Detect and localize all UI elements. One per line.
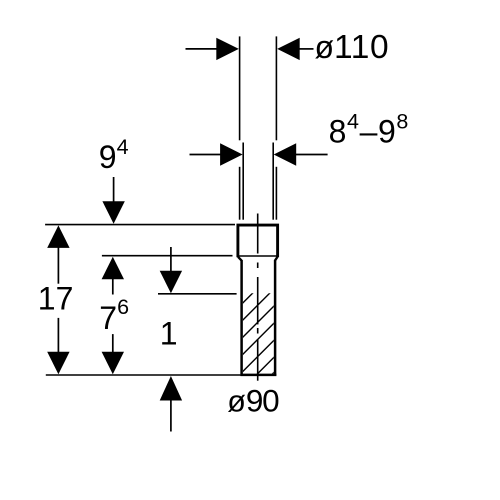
dimension 1 lower arrow (up, tip at bottom line) xyxy=(160,376,182,432)
dimension line D2 (8-9) right arrow xyxy=(274,143,328,165)
pipe hatching (45 degree) xyxy=(230,256,290,417)
extension line outer-left (x239.6) upper segment xyxy=(239,36,241,140)
dimension line D2 (8-9) left arrow xyxy=(190,143,243,165)
svg-text:17: 17 xyxy=(38,280,74,316)
label 8^4 - 9^8 xyxy=(329,109,409,149)
label ø110 xyxy=(315,29,390,66)
extension line inner-left (x243.2) xyxy=(242,143,244,220)
collar-to-pipe taper right xyxy=(275,257,278,261)
svg-text:ø110: ø110 xyxy=(315,29,390,66)
reference line B (insertion depth level) xyxy=(158,293,237,295)
dimension 7^6 upper arrow (up) xyxy=(102,257,124,295)
dimension 17 lower arrow (down) xyxy=(47,318,69,374)
label 7^6 xyxy=(99,295,129,336)
label 17 xyxy=(38,280,74,316)
svg-text:94: 94 xyxy=(99,135,129,175)
center line (dash-dot axis) xyxy=(257,214,259,381)
dimension line D1 (ø110) left arrow xyxy=(186,38,239,60)
extension line outer-right (x276.4) upper segment xyxy=(275,36,277,140)
dimension 1 upper arrow (down, tip at line B) xyxy=(160,247,182,293)
pipe right edge xyxy=(274,260,277,376)
arrow of 9^4 pointing down to top reference line xyxy=(102,177,124,224)
fitting collar (socket) body xyxy=(238,225,278,257)
extension line outer-left lower segment xyxy=(239,167,241,220)
pipe bottom edge xyxy=(240,374,276,377)
svg-text:84–98: 84–98 xyxy=(329,109,409,149)
collar-to-pipe taper left xyxy=(238,257,242,261)
extension line inner-right (x273.2) xyxy=(272,143,274,220)
pipe body white fill xyxy=(240,258,276,375)
dimension 17 upper arrow (up) xyxy=(47,225,69,283)
collar bottom thin edge xyxy=(237,255,280,257)
label 1 xyxy=(160,316,178,352)
pipe left edge xyxy=(240,260,243,376)
svg-text:1: 1 xyxy=(160,316,178,352)
dimension 7^6 lower arrow (down) xyxy=(102,334,124,374)
label 9^4 xyxy=(99,135,129,175)
svg-text:ø90: ø90 xyxy=(227,382,279,418)
dimension line D1 (ø110) right arrow xyxy=(277,38,313,60)
reference line A (collar bottom level) xyxy=(102,255,233,257)
label ø90 xyxy=(227,382,279,418)
svg-text:76: 76 xyxy=(99,295,129,336)
top reference line (collar top level) xyxy=(45,224,235,226)
extension line outer-right lower segment xyxy=(275,167,277,220)
bottom reference line (pipe end level) xyxy=(46,374,241,376)
